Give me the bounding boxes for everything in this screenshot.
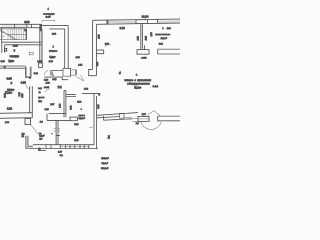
svg-text:h=1,1: h=1,1 [153,86,159,88]
svg-text:1.06: 1.06 [34,73,39,75]
svg-text:2.37: 2.37 [50,104,55,106]
wall right vertical upper [93,20,97,75]
svg-text:2.13: 2.13 [137,36,139,41]
door box [71,70,76,75]
cabinet box [29,52,33,55]
svg-text:2,5: 2,5 [39,138,43,140]
wall right-top band [93,19,180,24]
wall corridor top [51,71,63,76]
svg-text:6: 6 [14,48,16,52]
svg-text:2.41: 2.41 [78,64,83,66]
wall room6 inner [5,45,42,53]
terrace band B [158,115,180,117]
duct [25,66,31,77]
svg-text:1.40: 1.40 [59,103,61,108]
svg-text:4.15: 4.15 [21,80,27,84]
svg-text:3.26: 3.26 [52,79,57,81]
svg-text:3.62: 3.62 [7,107,13,111]
wall room3 right [30,86,33,113]
svg-text:1.23: 1.23 [84,88,89,90]
terrace band A [158,48,180,50]
svg-text:-1.40: -1.40 [0,36,6,38]
svg-text:3,5м²: 3,5м² [39,135,44,138]
svg-text:1.5: 1.5 [136,123,140,125]
room label 6.4 with bracket [42,9,55,22]
svg-text:11,9м²: 11,9м² [134,86,141,89]
wall top-left band [0,24,42,31]
svg-text:1:: 1: [39,92,41,94]
svg-text:+0.02: +0.02 [141,58,147,60]
svg-text:0.77: 0.77 [142,114,147,116]
wall x40 vertical [40,28,42,63]
svg-text:88,9м²: 88,9м² [102,162,108,165]
svg-text:108,9м²: 108,9м² [101,167,109,170]
svg-text:№1: №1 [108,134,111,138]
svg-text:3.78: 3.78 [74,140,79,142]
wall T vertical pair [56,120,58,145]
svg-text:7,9м²: 7,9м² [8,60,14,63]
porch L [26,136,33,149]
wall T-structure band [47,114,71,121]
wall right vertical lower [94,94,97,149]
wall left outer [1,42,3,53]
door arc [44,71,48,75]
svg-text:2.08: 2.08 [98,104,100,109]
door leaf diagonals [76,75,84,81]
svg-text:1.70: 1.70 [151,32,153,37]
svg-text:№2: №2 [38,100,42,103]
svg-text:3: 3 [11,81,13,85]
wall corridor bottom [44,77,68,80]
door arc right [141,121,162,129]
svg-text:1.70: 1.70 [5,122,10,124]
svg-text:1.59: 1.59 [77,102,82,104]
wall partition x141 [141,24,143,49]
svg-text:жилое: жилое [79,115,86,117]
wall room5 inner left [41,29,43,63]
svg-text:2.16: 2.16 [145,35,147,40]
svg-text:1: 1 [136,74,138,76]
svg-text:помещение: помещение [43,13,55,15]
svg-text:8.10: 8.10 [105,44,110,46]
svg-text:2.06: 2.06 [52,34,57,36]
door diagonal [31,125,38,134]
flue [4,48,7,52]
svg-text:3.78: 3.78 [74,124,79,126]
svg-text:1: 1 [48,9,50,11]
wall room5 top [42,25,68,29]
svg-text:1.97: 1.97 [58,152,63,154]
svg-text:2.11: 2.11 [13,44,18,48]
svg-text:3.86: 3.86 [7,76,13,80]
wall landing line [2,28,42,43]
svg-text:3.95: 3.95 [22,93,24,98]
door box T [70,117,77,121]
svg-text:1а: 1а [120,71,122,74]
svg-text:5,9м²: 5,9м² [50,56,56,59]
svg-text:3.08: 3.08 [71,105,73,110]
wall room6 bottom band [0,66,25,68]
svg-text:4.88: 4.88 [159,43,164,45]
svg-text:2.06: 2.06 [49,61,54,63]
pier box [63,68,71,76]
svg-text:6.08: 6.08 [24,20,30,24]
niche [97,50,104,54]
svg-text:уборная: уборная [49,51,57,53]
svg-text:24: 24 [22,136,25,138]
svg-text:проем: проем [38,97,45,99]
wall corridor right band [97,113,138,121]
door box below [25,119,31,125]
svg-text:4.88: 4.88 [167,28,172,30]
svg-text:5: 5 [53,46,55,48]
wall mid vertical pair [64,91,66,118]
svg-text:1.28: 1.28 [44,80,49,82]
wall mid-left band [0,113,32,119]
stairs [0,29,27,40]
svg-text:1.26: 1.26 [46,82,51,84]
svg-text:0.90: 0.90 [97,61,99,66]
flue box [119,113,124,118]
door sill box [124,117,138,121]
svg-text:h=2: h=2 [38,88,42,90]
svg-text:2.96: 2.96 [76,57,81,59]
svg-text:1.29: 1.29 [45,109,50,111]
wall mid horizontal line [82,92,100,94]
svg-text:2.54: 2.54 [99,34,101,39]
svg-text:+: + [81,108,83,110]
wall bottom band [33,145,98,149]
svg-text:1.5: 1.5 [40,121,44,123]
svg-text:13,2м²: 13,2м² [79,117,85,120]
svg-text:1.29: 1.29 [120,26,126,30]
radiator [144,45,146,49]
svg-text:2.08: 2.08 [19,92,21,97]
svg-text:3.63: 3.63 [1,61,6,63]
window box [39,63,43,67]
svg-text:коридор: коридор [10,55,20,58]
svg-text:жилая комната: жилая комната [156,34,171,36]
door leaf [147,111,160,116]
svg-text:6,4м²: 6,4м² [46,15,51,18]
svg-text:оборудованием: оборудованием [127,83,150,86]
wall room5 right [65,25,69,68]
svg-text:120,3м²: 120,3м² [101,157,109,160]
door arc room3 [26,84,30,89]
svg-text:1.3: 1.3 [60,155,64,157]
svg-text:жилое с кухонным: жилое с кухонным [125,79,152,82]
svg-text:17,9м²: 17,9м² [161,37,167,40]
svg-text:1: 1 [162,28,164,30]
svg-text:31,94: 31,94 [142,15,149,19]
wall stub mid [66,94,76,96]
